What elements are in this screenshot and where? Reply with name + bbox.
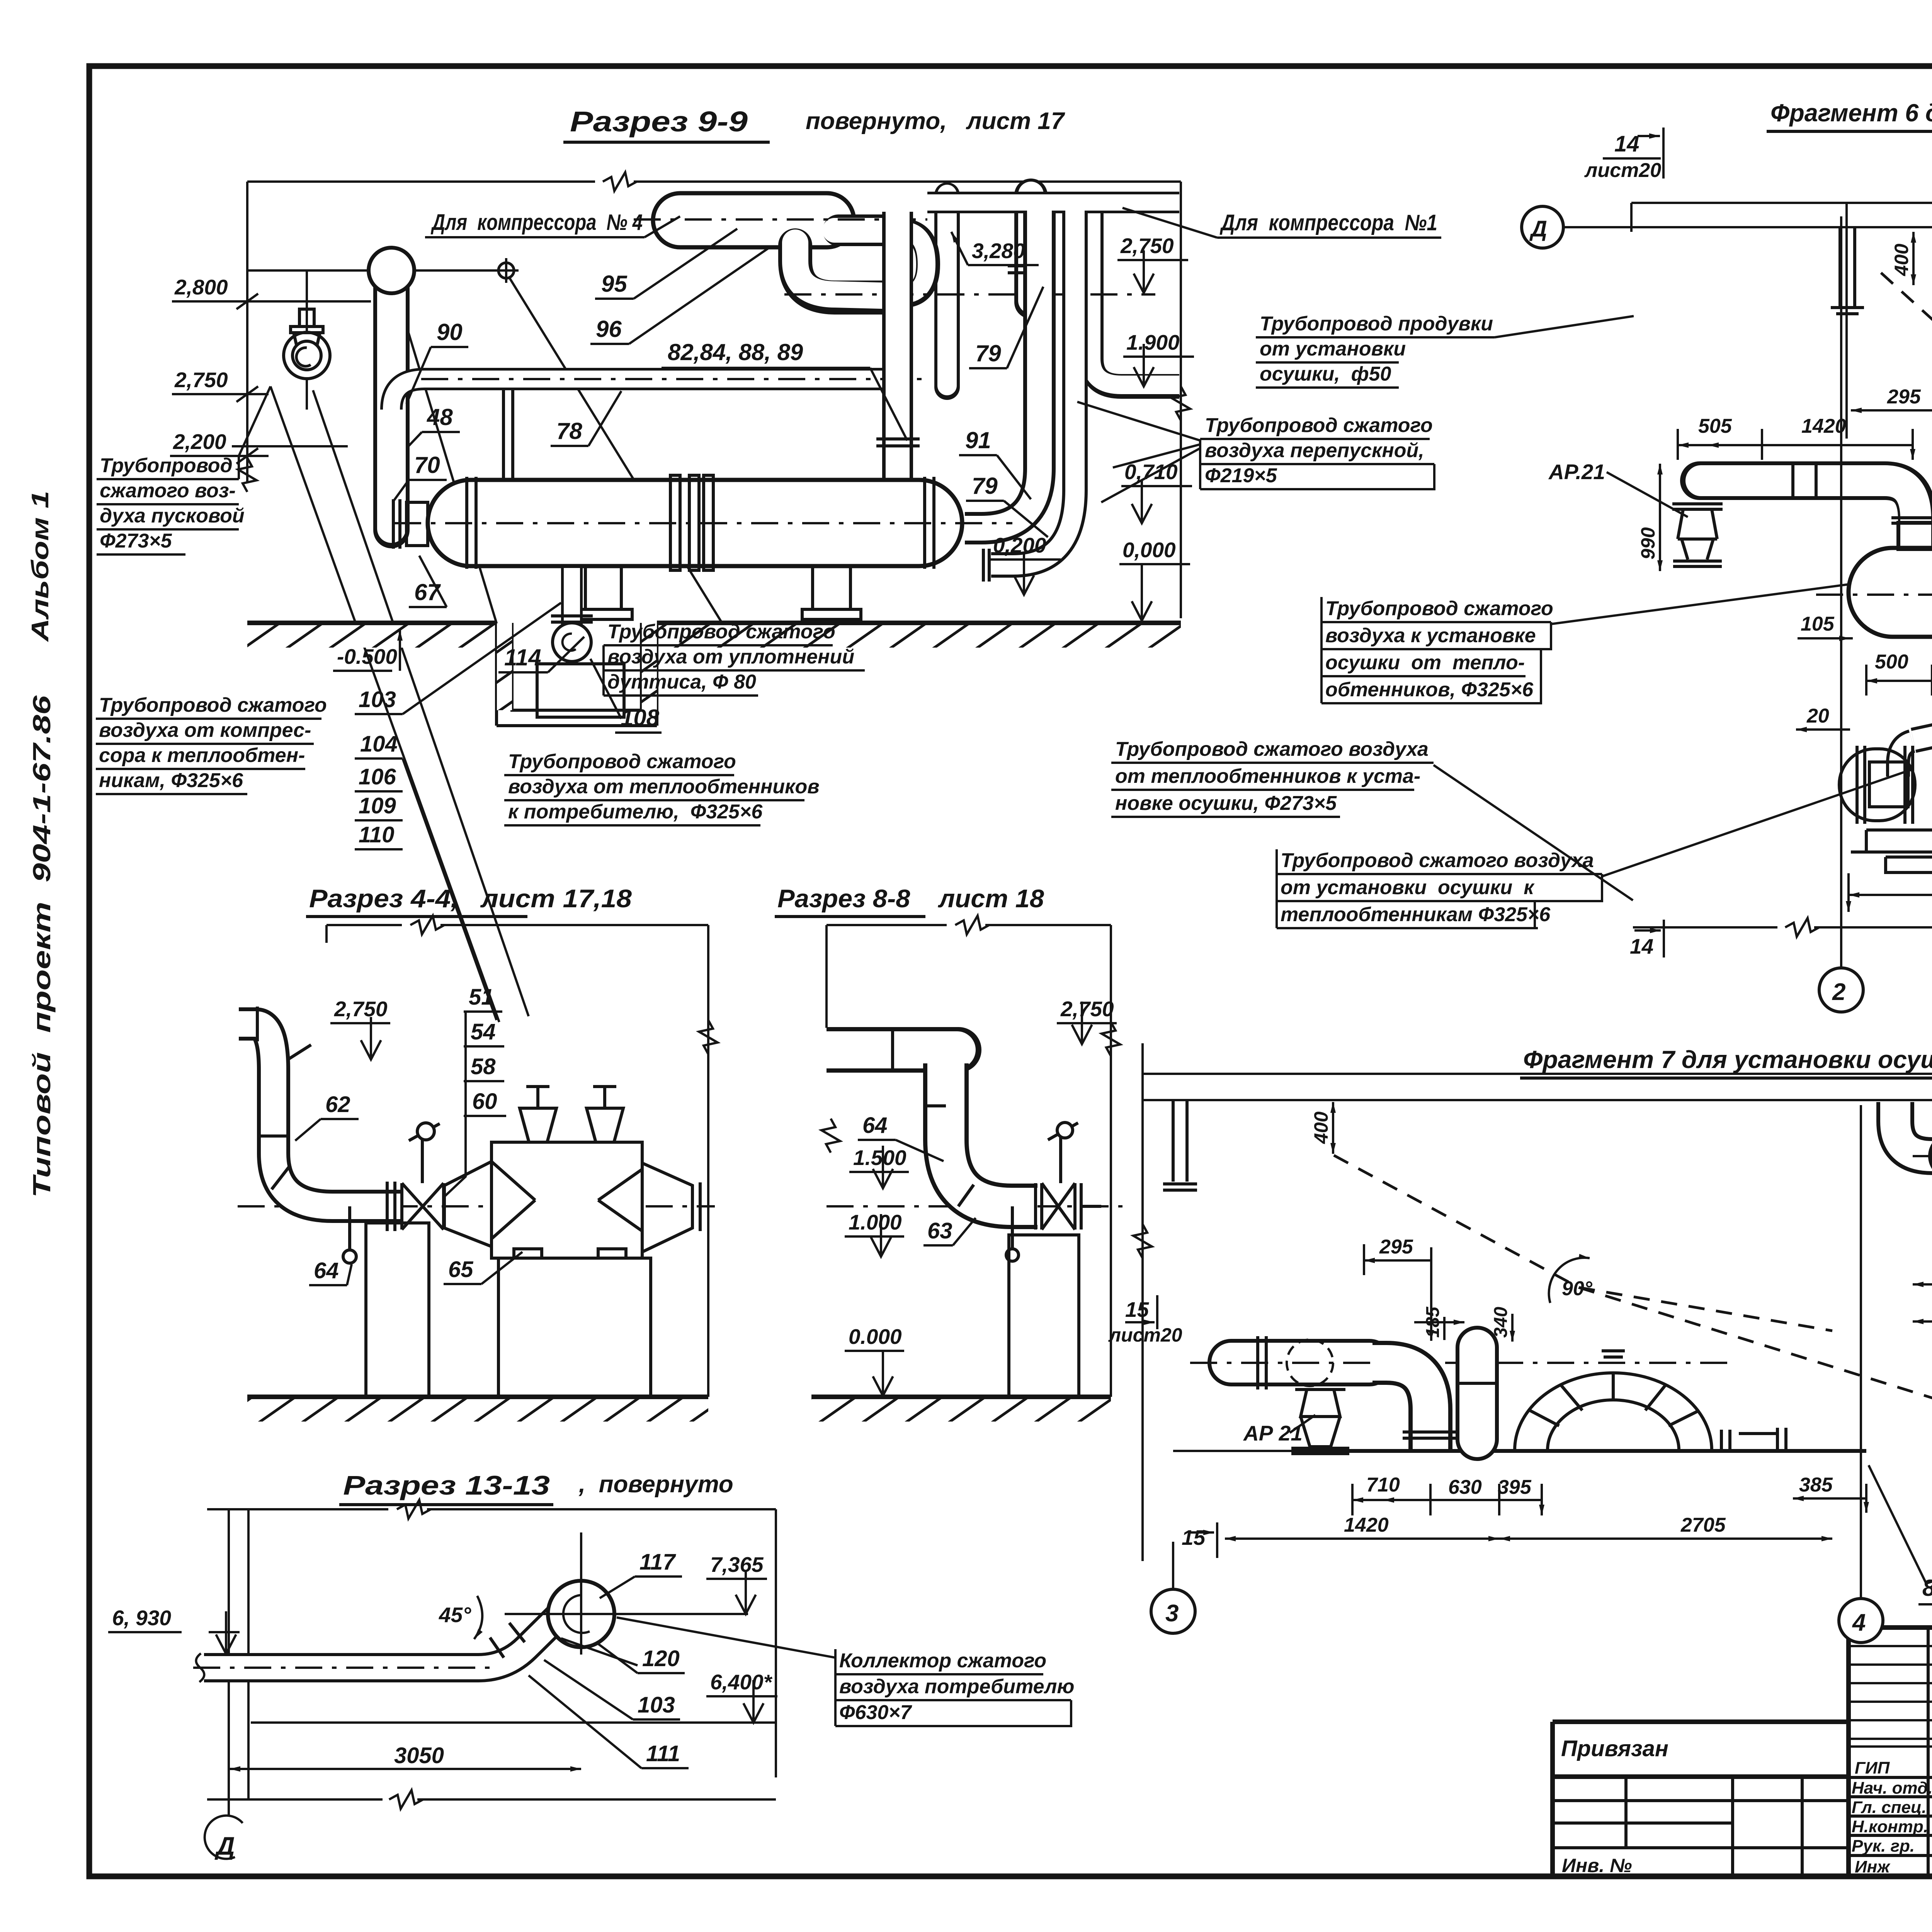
svg-text:Для компрессора №1: Для компрессора №1 — [1219, 210, 1437, 235]
svg-text:0,200: 0,200 — [993, 533, 1046, 557]
svg-text:воздуха перепускной,: воздуха перепускной, — [1205, 439, 1424, 462]
svg-text:Рук. гр.: Рук. гр. — [1852, 1837, 1915, 1855]
svg-text:духа пусковой: духа пусковой — [100, 505, 245, 527]
svg-text:64: 64 — [314, 1258, 339, 1283]
svg-text:0,000: 0,000 — [1122, 538, 1176, 562]
svg-text:, повернуто: , повернуто — [578, 1471, 733, 1498]
svg-text:Коллектор сжатого: Коллектор сжатого — [839, 1650, 1046, 1672]
svg-text:3,280: 3,280 — [972, 239, 1025, 263]
svg-text:95: 95 — [601, 271, 628, 297]
svg-text:108: 108 — [621, 705, 660, 731]
svg-text:62: 62 — [325, 1092, 350, 1117]
svg-text:385: 385 — [1799, 1474, 1833, 1496]
svg-text:Ф630×7: Ф630×7 — [839, 1701, 912, 1724]
svg-text:Разрез 13-13: Разрез 13-13 — [343, 1470, 550, 1500]
svg-text:дуттиса, Ф 80: дуттиса, Ф 80 — [607, 671, 756, 693]
svg-text:106: 106 — [359, 764, 396, 789]
svg-text:2705: 2705 — [1680, 1514, 1726, 1536]
svg-text:500: 500 — [1875, 651, 1908, 673]
svg-text:осушки, ф50: осушки, ф50 — [1260, 363, 1391, 385]
svg-text:Трубопровод сжатого: Трубопровод сжатого — [1205, 414, 1433, 437]
svg-text:79: 79 — [975, 340, 1001, 366]
svg-text:1.500: 1.500 — [853, 1146, 906, 1170]
svg-text:48: 48 — [427, 404, 453, 430]
svg-text:340: 340 — [1491, 1307, 1511, 1338]
svg-text:2: 2 — [1832, 979, 1845, 1005]
svg-text:90: 90 — [437, 319, 463, 345]
svg-text:400: 400 — [1891, 243, 1912, 276]
svg-text:1.900: 1.900 — [1126, 330, 1180, 354]
svg-text:1420: 1420 — [1801, 415, 1846, 437]
svg-text:2,750: 2,750 — [1060, 997, 1114, 1021]
svg-text:АР.21: АР.21 — [1548, 460, 1605, 484]
svg-text:105: 105 — [1801, 613, 1835, 635]
svg-text:2,200: 2,200 — [173, 430, 226, 454]
svg-text:114: 114 — [504, 645, 541, 670]
svg-text:54: 54 — [471, 1019, 496, 1044]
svg-text:91: 91 — [965, 427, 991, 453]
svg-text:Инв. №: Инв. № — [1562, 1855, 1632, 1876]
svg-text:295: 295 — [1379, 1236, 1413, 1258]
svg-text:710: 710 — [1366, 1474, 1400, 1496]
svg-text:Трубопровод продувки: Трубопровод продувки — [1260, 313, 1493, 335]
svg-text:2,750: 2,750 — [1120, 234, 1174, 258]
svg-text:Разрез 9-9: Разрез 9-9 — [570, 105, 748, 138]
svg-text:АР 21: АР 21 — [1243, 1421, 1303, 1445]
svg-text:1.000: 1.000 — [849, 1210, 902, 1234]
svg-text:67: 67 — [414, 579, 441, 605]
svg-text:Фрагмент 6 для установки осушк: Фрагмент 6 для установки осушки №1 листы… — [1770, 99, 1932, 127]
svg-text:630: 630 — [1448, 1476, 1482, 1498]
svg-text:осушки от тепло-: осушки от тепло- — [1325, 651, 1525, 674]
svg-text:воздуха от уплотнений: воздуха от уплотнений — [607, 646, 854, 668]
svg-text:45°: 45° — [439, 1603, 471, 1627]
svg-text:20: 20 — [1806, 705, 1829, 727]
svg-text:78: 78 — [556, 418, 582, 444]
svg-text:Нач. отд.: Нач. отд. — [1852, 1779, 1932, 1798]
svg-text:Привязан: Привязан — [1561, 1736, 1668, 1761]
svg-text:воздуха от компрес-: воздуха от компрес- — [99, 719, 311, 742]
svg-text:2,800: 2,800 — [174, 275, 228, 299]
svg-text:15: 15 — [1182, 1526, 1206, 1549]
svg-text:2,750: 2,750 — [334, 997, 388, 1021]
svg-text:Трубопровод: Трубопровод — [100, 454, 233, 477]
svg-text:60: 60 — [472, 1089, 497, 1114]
svg-text:ГИП: ГИП — [1855, 1759, 1890, 1777]
svg-text:103: 103 — [359, 687, 396, 712]
svg-text:505: 505 — [1698, 415, 1732, 437]
svg-text:90°: 90° — [1562, 1277, 1593, 1300]
svg-text:лист20: лист20 — [1584, 159, 1661, 182]
svg-text:111: 111 — [646, 1741, 680, 1766]
svg-text:воздуха потребителю: воздуха потребителю — [839, 1675, 1075, 1698]
svg-text:110: 110 — [359, 822, 394, 847]
svg-text:64: 64 — [862, 1113, 888, 1138]
svg-text:Разрез 8-8 лист 18: Разрез 8-8 лист 18 — [777, 884, 1044, 913]
svg-text:к потребителю, Ф325×6: к потребителю, Ф325×6 — [508, 801, 763, 823]
svg-text:никам, Ф325×6: никам, Ф325×6 — [99, 769, 243, 792]
svg-text:14: 14 — [1630, 934, 1653, 958]
svg-text:Гл. спец.: Гл. спец. — [1852, 1798, 1927, 1817]
svg-text:Альбом 1: Альбом 1 — [27, 491, 54, 643]
svg-text:400: 400 — [1310, 1111, 1332, 1144]
svg-text:2,750: 2,750 — [174, 368, 228, 392]
svg-text:Трубопровод сжатого воздуха: Трубопровод сжатого воздуха — [1281, 849, 1594, 872]
svg-text:14: 14 — [1614, 131, 1639, 156]
svg-text:58: 58 — [471, 1054, 496, 1079]
svg-text:теплообтенникам Ф325×6: теплообтенникам Ф325×6 — [1281, 903, 1551, 926]
svg-text:новке осушки, Ф273×5: новке осушки, Ф273×5 — [1115, 792, 1337, 815]
svg-text:Н.контр.: Н.контр. — [1852, 1817, 1928, 1836]
svg-text:Типовой проект 904-1-67.86: Типовой проект 904-1-67.86 — [28, 695, 56, 1198]
svg-text:4: 4 — [1852, 1609, 1866, 1636]
svg-text:395: 395 — [1498, 1476, 1532, 1498]
svg-text:295: 295 — [1887, 386, 1921, 408]
svg-text:103: 103 — [638, 1692, 675, 1718]
svg-text:3: 3 — [1165, 1600, 1179, 1627]
svg-text:990: 990 — [1637, 527, 1659, 560]
svg-text:Трубопровод сжатого: Трубопровод сжатого — [607, 621, 835, 643]
svg-text:104: 104 — [360, 731, 398, 757]
svg-text:120: 120 — [642, 1646, 680, 1671]
svg-text:от теплообтенников к уста-: от теплообтенников к уста- — [1115, 765, 1420, 787]
svg-text:повернуто, лист 17: повернуто, лист 17 — [806, 108, 1065, 134]
svg-text:109: 109 — [359, 793, 396, 818]
svg-text:Разрез 4-4, лист 17,18: Разрез 4-4, лист 17,18 — [309, 884, 632, 913]
svg-text:15: 15 — [1125, 1298, 1150, 1321]
svg-text:Д: Д — [214, 1832, 235, 1860]
svg-text:6,400*: 6,400* — [710, 1670, 773, 1694]
svg-text:Трубопровод сжатого: Трубопровод сжатого — [99, 694, 327, 716]
svg-text:Трубопровод сжатого: Трубопровод сжатого — [508, 750, 736, 773]
svg-text:воздуха от теплообтенников: воздуха от теплообтенников — [508, 776, 820, 798]
svg-text:117: 117 — [639, 1549, 676, 1575]
svg-text:Для компрессора № 4: Для компрессора № 4 — [430, 210, 643, 235]
svg-text:Фрагмент 7 для установки осушк: Фрагмент 7 для установки осушки №2 и №3 … — [1523, 1046, 1932, 1073]
svg-text:Д: Д — [1529, 216, 1547, 241]
svg-text:65: 65 — [448, 1257, 473, 1282]
svg-text:0.000: 0.000 — [849, 1325, 902, 1349]
svg-text:сжатого воз-: сжатого воз- — [100, 480, 236, 502]
svg-text:63: 63 — [927, 1218, 952, 1243]
svg-text:82,84, 88, 89: 82,84, 88, 89 — [668, 339, 803, 365]
svg-text:79: 79 — [972, 473, 998, 499]
svg-text:от установки осушки к: от установки осушки к — [1281, 876, 1535, 899]
svg-text:воздуха к установке: воздуха к установке — [1325, 624, 1536, 647]
svg-text:сора к теплообтен-: сора к теплообтен- — [99, 744, 305, 767]
svg-text:7,365: 7,365 — [710, 1553, 764, 1577]
svg-text:Ф219×5: Ф219×5 — [1205, 464, 1277, 487]
svg-text:96: 96 — [596, 316, 622, 342]
svg-text:70: 70 — [414, 452, 440, 478]
svg-text:51: 51 — [469, 985, 494, 1010]
svg-text:6, 930: 6, 930 — [112, 1606, 171, 1630]
svg-text:Ф273×5: Ф273×5 — [100, 530, 172, 552]
svg-text:Инж: Инж — [1855, 1857, 1891, 1876]
svg-text:от установки: от установки — [1260, 338, 1406, 360]
svg-text:1420: 1420 — [1344, 1514, 1389, 1536]
svg-text:лист20: лист20 — [1108, 1324, 1182, 1346]
svg-text:3050: 3050 — [394, 1743, 444, 1768]
svg-text:обтенников, Ф325×6: обтенников, Ф325×6 — [1325, 679, 1534, 701]
svg-text:Трубопровод сжатого: Трубопровод сжатого — [1325, 597, 1553, 620]
svg-text:-0.500: -0.500 — [337, 645, 397, 668]
svg-text:Трубопровод сжатого воздуха: Трубопровод сжатого воздуха — [1115, 738, 1429, 760]
